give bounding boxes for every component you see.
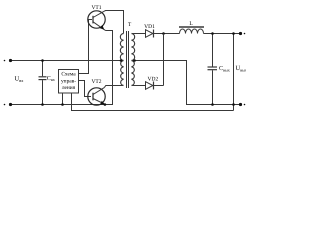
transformer T core <box>126 31 128 88</box>
capacitor C2 (Cвых) <box>208 34 218 105</box>
wire: bottom input rail <box>11 104 114 106</box>
capacitor C1 (Cвх) <box>39 61 47 105</box>
inductor L <box>180 29 204 34</box>
wire: VT2 collector to primary bottom <box>104 86 123 88</box>
wire: secondary top to VD1 <box>132 33 146 35</box>
wire: control output 1 to VT1 base <box>79 20 93 74</box>
transistor VT2 <box>88 88 105 106</box>
svg-text:Cвых: Cвых <box>219 66 230 72</box>
svg-text:L: L <box>189 21 193 27</box>
svg-text:Cвх: Cвх <box>47 76 55 82</box>
node: secondary center tap junction <box>133 59 136 62</box>
wire: feedback line from control box to output <box>72 93 234 111</box>
node: input terminal - <box>4 103 12 106</box>
node: VT2 emitter junction on ground rail <box>104 103 107 106</box>
node: Cвх bottom junction <box>41 103 44 106</box>
node: output terminal + <box>239 32 245 35</box>
svg-text:VT1: VT1 <box>91 5 101 11</box>
wire: L to output terminal <box>204 33 241 35</box>
transformer T secondary winding <box>132 34 135 86</box>
wire: control output 2 to VT2 base <box>79 81 92 97</box>
diode VD2 <box>146 82 154 90</box>
svg-text:ления: ления <box>62 85 76 91</box>
wire: output sense line <box>233 34 235 111</box>
wire: VD1-VD2 cathode tie <box>163 34 165 86</box>
wire: VD1 cathode to L node <box>154 33 180 35</box>
svg-text:VD1: VD1 <box>144 24 155 30</box>
control box U1 (Схема управления) <box>59 70 79 94</box>
svg-text:VD2: VD2 <box>148 76 159 82</box>
node: Cвых top junction <box>211 32 214 35</box>
svg-text:управ-: управ- <box>61 78 76 84</box>
svg-text:Uвх: Uвх <box>15 76 25 84</box>
node: input terminal + <box>4 59 12 62</box>
wire: top input rail <box>11 60 124 62</box>
transformer T primary winding <box>120 34 123 86</box>
diode VD1 <box>146 30 154 38</box>
node: output terminal - <box>239 103 245 106</box>
node: primary center tap junction <box>120 59 123 62</box>
node: junction on ground rail <box>61 103 64 106</box>
wire: VT1 emitter to ground rail <box>106 31 113 105</box>
node: rectifier output junction <box>162 32 165 35</box>
svg-text:T: T <box>128 22 132 28</box>
wire: secondary bottom to VD2 <box>132 85 146 87</box>
svg-text:Схема: Схема <box>61 72 76 78</box>
node: sense bottom junction <box>232 103 235 106</box>
svg-text:VT2: VT2 <box>91 79 101 85</box>
label: Схема управ- ления <box>61 72 76 91</box>
transistor VT1 <box>88 11 106 31</box>
wire: control box to input ground <box>62 93 64 105</box>
node: Cвых bottom junction <box>211 103 214 106</box>
wire: VT1 collector to primary top <box>104 11 124 34</box>
node: Cвх top junction <box>41 59 44 62</box>
svg-text:Uвых: Uвых <box>236 65 247 72</box>
wire: VD2 cathode to tie point <box>154 85 164 87</box>
node: sense top junction <box>232 32 235 35</box>
inductor L core bar <box>179 26 204 28</box>
wire: secondary center tap return <box>132 61 241 105</box>
